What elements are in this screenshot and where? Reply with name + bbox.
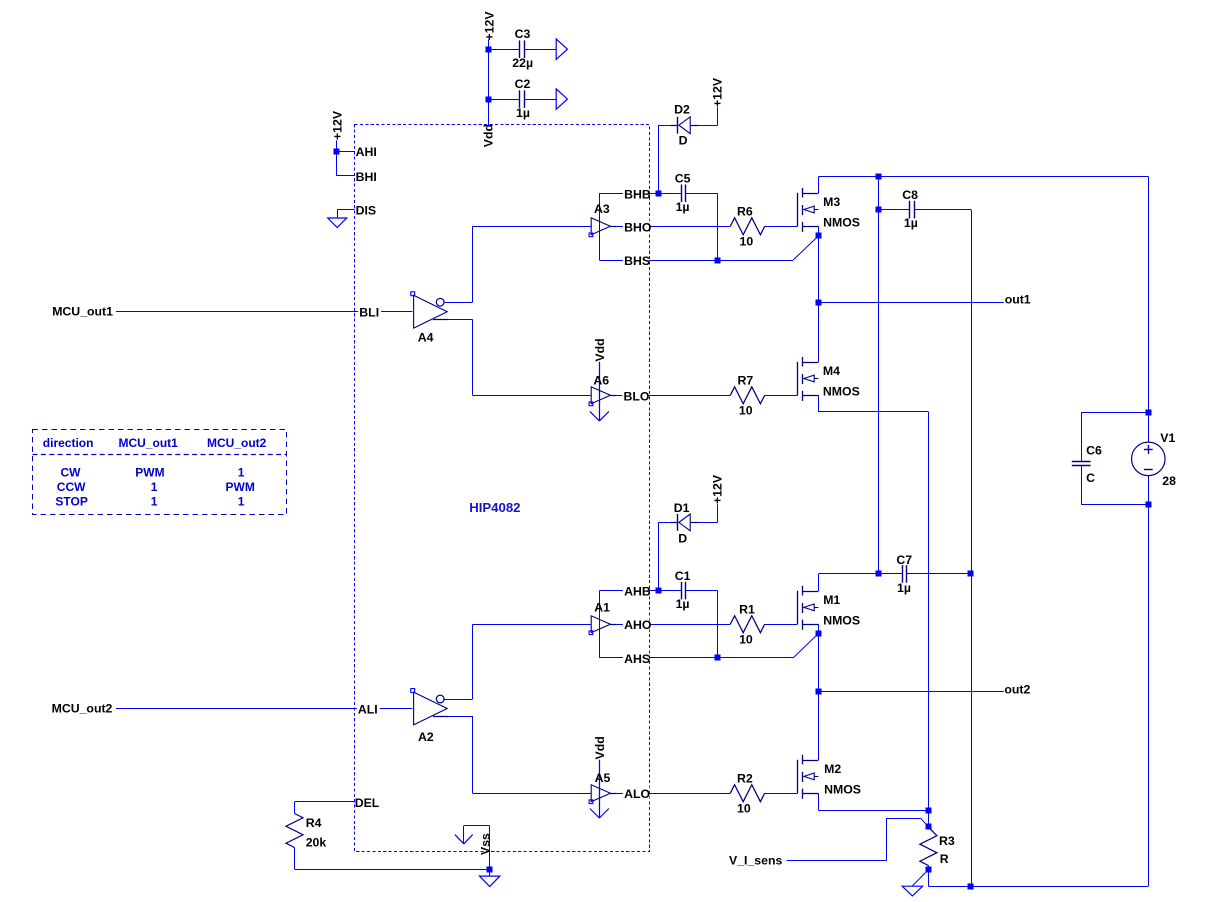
wire D1 cathode row — [658, 522, 671, 524]
wire M4 source rail down to R3 — [928, 412, 930, 811]
pin label BLO — [622, 389, 648, 402]
pin label BHO — [623, 220, 650, 233]
nmos M2 — [797, 760, 799, 793]
wire D2 cathode row — [658, 125, 671, 127]
svg-text:28: 28 — [1162, 474, 1176, 488]
svg-text:1µ: 1µ — [904, 216, 918, 230]
wire D2 anode to +12V stub — [698, 125, 718, 127]
wire +12V feed down to Vdd pin — [488, 40, 490, 125]
svg-text:C6: C6 — [1086, 444, 1102, 458]
svg-text:BLI: BLI — [359, 306, 379, 320]
wire AHI pin — [337, 151, 355, 153]
wire D1 anode drop to AHB — [658, 522, 660, 590]
svg-text:Vdd: Vdd — [482, 124, 496, 147]
pin label AHO — [623, 617, 650, 630]
svg-text:V_I_sens: V_I_sens — [729, 853, 782, 867]
wire BHO row to R6 — [617, 226, 731, 228]
capacitor C3 — [519, 40, 521, 58]
svg-text:M4: M4 — [823, 364, 840, 378]
pin label BLI — [358, 305, 381, 318]
ground DIS — [328, 218, 347, 228]
resistor R2 — [730, 785, 764, 802]
svg-text:STOP: STOP — [55, 495, 87, 509]
svg-text:MCU_out1: MCU_out1 — [52, 305, 113, 319]
svg-text:M1: M1 — [823, 593, 840, 607]
wire C6 top branch — [1081, 412, 1148, 414]
svg-text:MCU_out1: MCU_out1 — [119, 436, 179, 450]
wire C1 right, down to AHS — [686, 590, 718, 592]
svg-text:A4: A4 — [418, 330, 434, 344]
svg-text:V1: V1 — [1160, 431, 1175, 445]
svg-text:DIS: DIS — [356, 203, 377, 217]
svg-text:R7: R7 — [738, 374, 754, 388]
svg-text:Vdd: Vdd — [593, 736, 607, 759]
diode D1 — [671, 522, 678, 524]
Vss hook arrowhead — [455, 835, 464, 844]
wire V1 bottom lead — [1148, 476, 1150, 505]
wire BHI pin — [337, 175, 355, 177]
svg-text:DEL: DEL — [355, 796, 380, 810]
capacitor C1 — [681, 582, 683, 600]
wire C3 left lead — [489, 49, 520, 51]
wire BHB pin row — [599, 193, 658, 195]
svg-text:MCU_out2: MCU_out2 — [207, 436, 267, 450]
svg-text:BHS: BHS — [624, 254, 650, 268]
svg-text:1: 1 — [151, 495, 158, 509]
ground R3 — [902, 886, 922, 896]
capacitor C2 — [519, 90, 521, 108]
wire C7 right lead — [907, 573, 971, 575]
svg-text:D2: D2 — [674, 103, 690, 117]
wire right rail down to V1 — [1148, 177, 1150, 413]
wire out2 — [818, 691, 1003, 693]
svg-text:AHO: AHO — [624, 618, 652, 632]
wire BLO row to R7 — [617, 395, 731, 397]
svg-text:10: 10 — [737, 802, 751, 816]
svg-text:BHO: BHO — [624, 220, 652, 234]
svg-text:+12V: +12V — [711, 77, 725, 107]
svg-text:C5: C5 — [675, 172, 691, 186]
svg-text:PWM: PWM — [135, 465, 164, 479]
pin label BHB — [623, 187, 649, 200]
svg-text:D1: D1 — [674, 501, 690, 515]
wire C8 right lead, down rail — [915, 209, 971, 211]
svg-text:C1: C1 — [675, 569, 691, 583]
inverting buffer A4 — [414, 295, 448, 328]
svg-text:MCU_out2: MCU_out2 — [52, 702, 113, 716]
svg-text:out1: out1 — [1005, 292, 1031, 306]
svg-text:22µ: 22µ — [512, 56, 533, 70]
wire BHS row — [599, 260, 793, 262]
wire A3 supply bar BHB-BHS — [599, 193, 601, 260]
HIP4082 IC dashed boundary box — [355, 125, 650, 852]
wire M1 drain to C7 junction — [818, 573, 878, 575]
wire bottom rail — [928, 886, 1148, 888]
wire C5 right, down to BHS — [686, 193, 718, 195]
svg-text:HIP4082: HIP4082 — [469, 500, 520, 515]
svg-text:1µ: 1µ — [516, 106, 530, 120]
wire C6 bottom branch — [1081, 504, 1148, 506]
svg-text:BHI: BHI — [356, 170, 377, 184]
wire A4 output down to A6 input — [448, 319, 473, 321]
wire right rail to bottom — [1148, 505, 1150, 886]
svg-text:M2: M2 — [824, 762, 841, 776]
pin label BHI — [355, 169, 379, 182]
svg-text:Vdd: Vdd — [593, 338, 607, 361]
ground Vss — [480, 876, 500, 886]
svg-text:A3: A3 — [594, 202, 610, 216]
wire A2 output down to A5 input — [448, 716, 473, 718]
svg-text:NMOS: NMOS — [823, 385, 860, 399]
buffer A5 with Vdd bar and ground arrow — [599, 760, 601, 818]
wire AHS diagonal to M1 source — [793, 634, 818, 658]
buffer A6 with Vdd bar and ground arrow — [599, 362, 601, 421]
capacitor C5 — [681, 185, 683, 203]
wire BHB to C5 — [658, 193, 681, 195]
pin label BHS — [623, 253, 649, 266]
svg-text:C: C — [1086, 471, 1095, 485]
wire V1 top lead — [1148, 412, 1150, 442]
voltage source V1 — [1132, 442, 1166, 476]
svg-text:+12V: +12V — [330, 110, 344, 140]
wire ALO row to R2 — [617, 793, 731, 795]
svg-text:AHI: AHI — [356, 145, 377, 159]
inverting buffer A2 — [414, 692, 448, 725]
wire DIS pin to ground — [337, 209, 354, 211]
wire C8 left lead — [878, 209, 909, 211]
pin label DEL — [355, 795, 380, 808]
svg-text:A6: A6 — [593, 373, 609, 387]
svg-text:1µ: 1µ — [897, 581, 911, 595]
wire A2 inverted output up to A1 input — [444, 699, 473, 701]
wire M1 drain up to C7 row — [818, 574, 820, 591]
svg-text:AHS: AHS — [624, 652, 650, 666]
nmos M1 — [797, 591, 799, 624]
wire C2 right lead to port — [525, 99, 556, 101]
svg-text:BHB: BHB — [624, 187, 651, 201]
resistor R7 — [730, 387, 764, 404]
svg-text:R2: R2 — [737, 771, 753, 785]
svg-text:1: 1 — [238, 465, 245, 479]
buffer A1 — [591, 616, 610, 633]
svg-text:out2: out2 — [1004, 683, 1030, 697]
wire R3 node segment — [928, 811, 930, 828]
wire junctions — [486, 47, 492, 53]
svg-text:CCW: CCW — [57, 480, 86, 494]
svg-text:CW: CW — [61, 465, 82, 479]
wire C2 left lead — [489, 99, 520, 101]
wire AHB to C1 — [658, 590, 681, 592]
wire A4 inverted output up to A3 input — [444, 302, 473, 304]
svg-text:A2: A2 — [418, 730, 434, 744]
svg-text:Vss: Vss — [478, 833, 492, 855]
wire R1 to M1 gate — [765, 624, 798, 626]
svg-text:ALI: ALI — [358, 703, 378, 717]
svg-text:C7: C7 — [896, 553, 912, 567]
svg-text:R4: R4 — [306, 816, 322, 830]
svg-text:NMOS: NMOS — [824, 783, 861, 797]
ground port C3 — [556, 39, 567, 59]
svg-text:+12V: +12V — [482, 11, 496, 41]
svg-text:R3: R3 — [939, 834, 955, 848]
svg-text:10: 10 — [740, 235, 754, 249]
wire MCU_out1 to BLI / A4 input — [116, 311, 412, 313]
wire C6 top lead — [1081, 412, 1083, 461]
pin label AHS — [623, 651, 649, 664]
resistor R4 — [286, 814, 303, 848]
resistor R3 — [920, 827, 937, 865]
wire MCU_out2 to ALI / A2 input — [116, 708, 412, 710]
capacitor C8 — [909, 201, 911, 219]
wire top rail to right edge — [818, 176, 1148, 178]
svg-text:M3: M3 — [823, 195, 840, 209]
svg-text:1: 1 — [151, 480, 158, 494]
svg-text:1: 1 — [238, 495, 245, 509]
wire R3 bottom to bottom rail — [928, 870, 930, 887]
wire R3 bottom lead — [928, 866, 930, 870]
svg-text:BLO: BLO — [624, 389, 650, 403]
svg-text:AHB: AHB — [624, 585, 651, 599]
wire R7 to M4 gate — [765, 395, 798, 397]
wire C3 right lead to port — [525, 49, 556, 51]
svg-text:10: 10 — [739, 633, 753, 647]
svg-text:direction: direction — [43, 436, 94, 450]
nmos M4 — [797, 362, 799, 395]
wire R3 ground diagonal — [912, 870, 928, 886]
capacitor C7 — [902, 565, 904, 583]
wire C7 left lead — [878, 573, 902, 575]
svg-text:C8: C8 — [902, 188, 918, 202]
wire BHS diagonal to M3 source — [793, 236, 818, 260]
wire V_I_sens run — [787, 860, 887, 862]
svg-text:NMOS: NMOS — [823, 216, 860, 230]
pin label ALO — [623, 786, 650, 799]
svg-text:A1: A1 — [594, 601, 610, 615]
svg-text:PWM: PWM — [226, 480, 255, 494]
wire C8 rail vertical — [878, 177, 880, 574]
svg-text:C3: C3 — [515, 27, 531, 41]
pin label AHB — [623, 584, 649, 597]
diode D2 — [671, 125, 678, 127]
wire C6 bottom lead — [1081, 465, 1083, 505]
wire M4 source down and right — [818, 395, 820, 412]
svg-text:R: R — [940, 852, 949, 866]
ground port C2 — [556, 89, 567, 109]
svg-text:1µ: 1µ — [676, 200, 690, 214]
svg-text:R6: R6 — [737, 205, 753, 219]
svg-text:D: D — [679, 133, 688, 147]
wire Vss hook — [464, 825, 490, 827]
svg-text:A5: A5 — [595, 771, 611, 785]
svg-text:1µ: 1µ — [676, 597, 690, 611]
svg-text:10: 10 — [739, 404, 753, 418]
truth table dashed border — [33, 430, 287, 515]
wire R4 bottom to Vss node — [294, 848, 296, 870]
svg-text:R1: R1 — [739, 602, 755, 616]
svg-text:20k: 20k — [306, 836, 327, 850]
svg-text:ALO: ALO — [624, 787, 650, 801]
svg-text:NMOS: NMOS — [823, 614, 860, 628]
svg-text:C2: C2 — [515, 77, 531, 91]
wire M2 drain up to out2 node — [818, 691, 820, 760]
resistor R1 — [730, 616, 764, 633]
wire M2 source down and right — [818, 793, 820, 810]
wire R2 to M2 gate — [765, 793, 798, 795]
pin label ALI — [357, 702, 380, 715]
wire AHO row to R1 — [617, 624, 731, 626]
buffer A3 — [591, 218, 610, 235]
wire D2 anode drop to BHB — [658, 125, 660, 193]
wire DEL pin to R4 — [295, 801, 355, 803]
wire +12V stub to AHI — [336, 140, 338, 176]
wire V_I_sens diagonal tap — [921, 818, 929, 827]
wire AHS row — [599, 657, 793, 659]
wire D1 anode to +12V stub — [698, 522, 718, 524]
wire R6 to M3 gate — [765, 226, 798, 228]
wire M3 source down to out1 node — [818, 226, 820, 302]
wire M4 drain up to out1 node — [818, 302, 820, 362]
capacitor C6 — [1072, 461, 1091, 463]
wire M1 source down to out2 node — [818, 624, 820, 691]
pin label AHI — [355, 144, 379, 157]
pin label DIS — [355, 203, 379, 216]
wire out1 — [818, 302, 1003, 304]
truth table header divider — [33, 454, 287, 456]
svg-text:+12V: +12V — [711, 474, 725, 504]
nmos M3 — [797, 193, 799, 226]
wire M3 drain up to top rail — [818, 177, 820, 194]
wire A1 supply bar AHB-AHS — [599, 591, 601, 658]
svg-text:D: D — [678, 531, 687, 545]
wire AHB pin row — [599, 590, 658, 592]
resistor R6 — [730, 218, 764, 235]
wire Vss pin vertical — [489, 826, 491, 876]
